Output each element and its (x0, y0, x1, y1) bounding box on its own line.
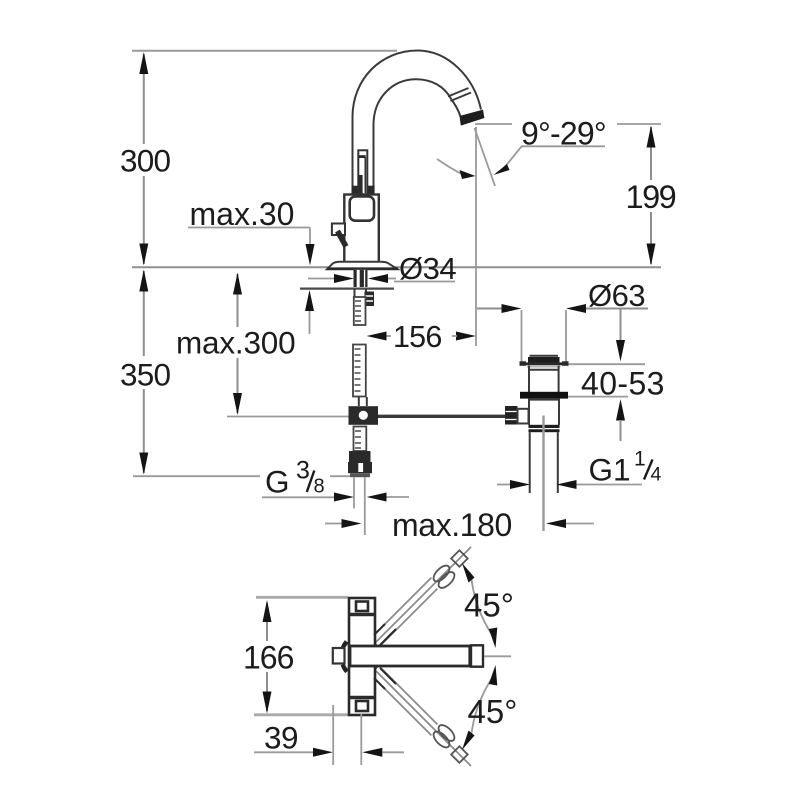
svg-text:40-53: 40-53 (581, 366, 665, 402)
svg-text:300: 300 (120, 143, 170, 179)
svg-text:8: 8 (314, 476, 325, 498)
svg-text:3: 3 (296, 457, 310, 485)
svg-text:156: 156 (393, 320, 442, 354)
svg-text:4: 4 (651, 464, 662, 486)
svg-text:Ø63: Ø63 (588, 278, 645, 313)
svg-text:G: G (265, 464, 290, 500)
svg-text:199: 199 (626, 179, 676, 215)
svg-text:350: 350 (120, 357, 170, 393)
svg-text:166: 166 (243, 640, 294, 676)
svg-text:45°: 45° (468, 693, 518, 730)
svg-text:max.180: max.180 (392, 507, 512, 543)
svg-text:1: 1 (634, 448, 646, 471)
svg-text:45°: 45° (464, 587, 514, 624)
svg-text:G1: G1 (589, 451, 631, 487)
svg-text:39: 39 (264, 720, 298, 756)
svg-text:max.300: max.300 (176, 325, 295, 361)
